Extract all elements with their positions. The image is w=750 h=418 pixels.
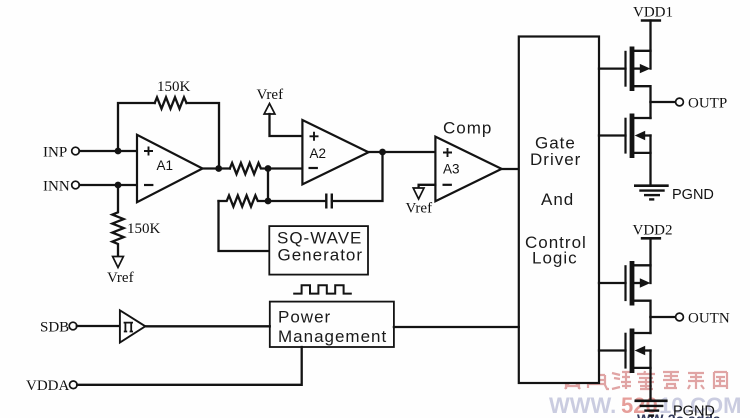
transistor Q1 high-side P (626, 47, 651, 103)
svg-text:WWW.: WWW. (549, 393, 616, 418)
wire SDB to buffer (77, 325, 120, 327)
svg-text:A1: A1 (157, 158, 174, 173)
wire R3 to A2 inverting input (268, 167, 302, 169)
junction node lower branch (265, 198, 272, 205)
svg-text:Logic: Logic (532, 249, 578, 268)
wire gate1 from driver (599, 67, 626, 69)
gate driver and control logic block (519, 37, 599, 384)
wire gate3 from driver (599, 282, 626, 284)
junction node at INN resistor tap (115, 182, 122, 189)
svg-text:150K: 150K (157, 79, 191, 95)
svg-text:Vref: Vref (257, 87, 284, 103)
svg-text:Generator: Generator (278, 246, 364, 265)
junction node A2 output (379, 149, 386, 156)
terminal OUTN (676, 311, 730, 327)
wire VDDA to power management (77, 347, 302, 385)
op-amp A2 (302, 120, 368, 184)
junction node A2 inverting (265, 165, 272, 172)
svg-text:Vref: Vref (107, 270, 134, 286)
buffer U1 shutdown (120, 310, 145, 342)
svg-text:OUTP: OUTP (688, 96, 727, 112)
wire A2 output to A3 (369, 151, 436, 153)
svg-text:SDB: SDB (40, 320, 69, 336)
watermark chinese pseudo-glyphs (563, 371, 727, 389)
SQ-WAVE generator block (269, 226, 368, 275)
supply VDD1 (633, 5, 673, 69)
svg-text:Power: Power (278, 308, 331, 327)
power management block (270, 302, 394, 347)
terminal INP (43, 145, 79, 161)
transistor Q3 high-side P (626, 261, 651, 317)
svg-text:PGND: PGND (672, 187, 714, 203)
ground PGND lower (635, 401, 715, 418)
svg-text:Management: Management (278, 327, 387, 346)
svg-text:VDD1: VDD1 (633, 5, 673, 21)
resistor R2 150K to Vref (112, 185, 160, 257)
resistor R4 (sq-wave to A2 inv) (219, 195, 269, 206)
wire A1 output (203, 167, 230, 169)
svg-text:And: And (541, 190, 574, 209)
wire INN to A1 (80, 184, 137, 186)
resistor R1 150K feedback (155, 79, 191, 109)
comparator A3 (435, 137, 501, 202)
terminal SDB (40, 320, 77, 336)
Vref arrow above A2 (257, 87, 303, 136)
svg-text:VDD2: VDD2 (633, 223, 673, 239)
wire A3 inverting to Vref (419, 185, 436, 188)
wire INP to A1 (80, 150, 137, 152)
supply VDD2 (633, 223, 673, 284)
terminal INN (43, 179, 79, 195)
wire node down to lower branch (267, 169, 269, 202)
resistor R3 (A1 out to A2 inv) (230, 163, 268, 174)
wire power management to gate driver (394, 326, 519, 328)
svg-text:Vref: Vref (406, 201, 433, 217)
svg-text:Comp: Comp (443, 119, 492, 138)
wire R4 to SQ-WAVE generator (219, 201, 270, 251)
op-amp A1 (137, 135, 203, 202)
wire buffer to power management (145, 325, 269, 327)
terminal OUTP (676, 96, 728, 112)
wire gate2 from driver (599, 134, 626, 136)
wire A3 output (502, 168, 519, 170)
wire feedback left vertical (118, 103, 155, 151)
svg-text:INN: INN (43, 179, 70, 195)
wire OUTP node (651, 101, 676, 103)
capacitor C1 integrator feedback (268, 152, 383, 209)
wire feedback right vertical to A1 output (187, 103, 220, 169)
svg-text:A3: A3 (443, 162, 460, 177)
transistor Q4 low-side N (626, 317, 651, 401)
ground PGND upper (634, 186, 714, 203)
svg-text:VDDA: VDDA (26, 378, 69, 394)
wire OUTN node (651, 316, 676, 318)
watermark www url row (549, 393, 741, 418)
svg-text:INP: INP (43, 145, 67, 161)
svg-text:Driver: Driver (530, 150, 581, 169)
junction node at INP feedback tap (115, 148, 122, 155)
svg-text:A2: A2 (310, 146, 327, 161)
Vref arrow at A3 (406, 188, 433, 217)
svg-text:OUTN: OUTN (688, 311, 730, 327)
terminal VDDA (26, 378, 77, 394)
junction node A1 output (215, 165, 222, 172)
svg-text:PGND: PGND (673, 404, 715, 418)
Vref arrow below R2 (107, 257, 134, 287)
transistor Q2 low-side N (626, 102, 651, 186)
wire gate4 from driver (599, 349, 626, 351)
square wave glyph (293, 285, 352, 293)
svg-text:150K: 150K (127, 221, 161, 237)
